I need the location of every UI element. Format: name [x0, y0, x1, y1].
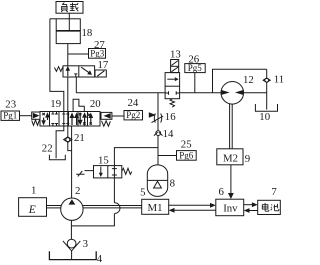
svg-text:12: 12 — [243, 74, 254, 86]
svg-text:Pg5: Pg5 — [188, 63, 203, 73]
svg-text:4: 4 — [97, 253, 103, 265]
svg-text:19: 19 — [50, 98, 61, 110]
svg-text:2: 2 — [75, 185, 80, 197]
svg-text:23: 23 — [5, 98, 16, 110]
svg-text:1: 1 — [31, 185, 36, 197]
svg-text:E: E — [28, 204, 36, 216]
svg-text:3: 3 — [83, 238, 88, 250]
svg-text:18: 18 — [82, 27, 93, 39]
svg-text:16: 16 — [165, 111, 176, 123]
svg-text:Pg2: Pg2 — [126, 110, 140, 120]
svg-text:11: 11 — [274, 74, 284, 86]
svg-text:15: 15 — [98, 154, 109, 166]
svg-text:17: 17 — [98, 59, 109, 71]
svg-text:20: 20 — [90, 98, 101, 110]
svg-text:8: 8 — [170, 177, 175, 189]
svg-text:5: 5 — [140, 186, 145, 198]
svg-text:6: 6 — [219, 186, 225, 198]
svg-text:7: 7 — [271, 186, 277, 198]
svg-text:Pg1: Pg1 — [3, 111, 17, 121]
svg-text:24: 24 — [128, 97, 139, 109]
svg-text:21: 21 — [74, 132, 85, 144]
svg-text:M1: M1 — [148, 202, 163, 214]
svg-text:22: 22 — [42, 142, 53, 154]
svg-text:Pg6: Pg6 — [179, 151, 194, 161]
svg-text:9: 9 — [245, 153, 250, 165]
svg-text:Inv: Inv — [223, 203, 238, 215]
svg-text:M2: M2 — [223, 153, 238, 165]
svg-text:10: 10 — [259, 111, 270, 123]
svg-text:13: 13 — [170, 48, 181, 60]
svg-text:25: 25 — [181, 139, 192, 151]
svg-text:Pg3: Pg3 — [90, 49, 105, 59]
svg-text:14: 14 — [163, 128, 174, 140]
